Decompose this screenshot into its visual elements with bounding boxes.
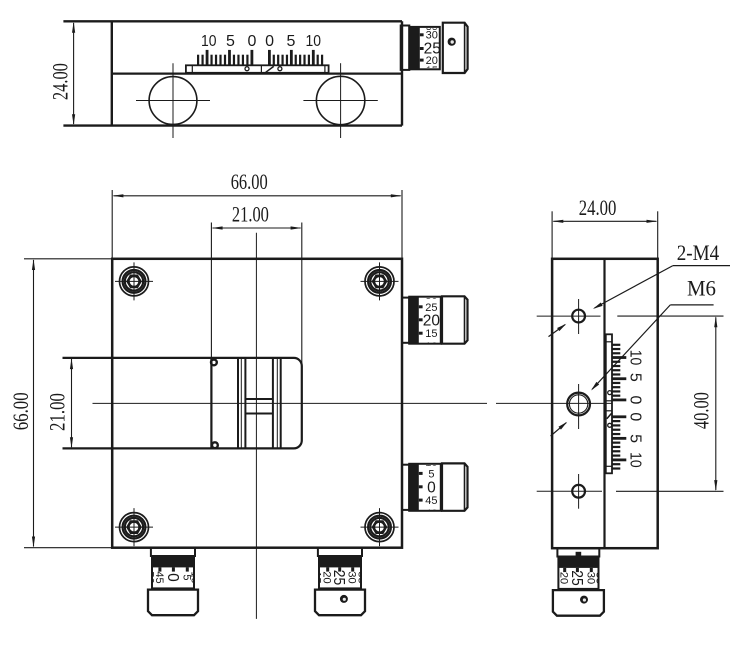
side ruler screw top — [608, 391, 612, 395]
svg-text:5: 5 — [626, 434, 643, 443]
MS1 collar — [557, 548, 599, 556]
MS1 thimble — [553, 590, 604, 616]
svg-text:21.00: 21.00 — [232, 201, 269, 226]
carriage corner relief bottom-left — [212, 442, 218, 448]
top view mid parting line — [112, 72, 402, 74]
top view body outline — [63, 20, 402, 22]
MR1 collar — [402, 298, 409, 343]
svg-text:10: 10 — [626, 452, 643, 468]
svg-text:21.00: 21.00 — [45, 393, 70, 431]
side dimension 24.00 — [551, 211, 553, 258]
MB1 collar — [151, 548, 195, 556]
side ruler base bar — [606, 334, 612, 473]
front dimension 66.00 vertical — [24, 258, 112, 260]
svg-text:0: 0 — [247, 33, 256, 50]
top ruler screw left — [245, 67, 249, 71]
carriage center block lines — [245, 398, 273, 400]
top view dimension 24.00 — [73, 23, 75, 124]
top view knob hole right — [316, 76, 364, 124]
top ruler tick marks left scale — [197, 50, 253, 66]
MB2 collar — [318, 548, 362, 556]
corner socket screw 3 — [115, 508, 153, 546]
svg-text:24.00: 24.00 — [579, 195, 617, 220]
front dimension 21.00 vertical — [63, 357, 212, 359]
side hole bottom M4 — [572, 485, 585, 498]
corner socket screw 2 — [361, 262, 399, 300]
MB2 barrel — [319, 556, 361, 588]
svg-text:5: 5 — [286, 33, 295, 50]
svg-text:0: 0 — [427, 479, 436, 496]
svg-text:10: 10 — [201, 33, 217, 50]
svg-text:20: 20 — [423, 312, 441, 329]
MB2 thimble — [315, 590, 365, 616]
svg-text:M6: M6 — [687, 276, 716, 301]
side hole middle M6 — [567, 393, 590, 416]
svg-text:0: 0 — [626, 395, 643, 404]
front dimension 21.00 horizontal — [210, 223, 212, 449]
corner socket screw 1 — [115, 262, 153, 300]
svg-text:40.00: 40.00 — [689, 392, 714, 429]
top ruler index pointer — [266, 66, 274, 72]
svg-text:66.00: 66.00 — [8, 392, 33, 430]
svg-text:45: 45 — [425, 495, 437, 507]
svg-text:66.00: 66.00 — [231, 169, 268, 194]
svg-text:45: 45 — [153, 571, 165, 583]
MR1 thimble — [442, 296, 468, 343]
MS1 barrel — [558, 557, 598, 589]
svg-text:25: 25 — [330, 570, 347, 586]
corner socket screw 4 — [361, 508, 399, 546]
svg-text:2-M4: 2-M4 — [677, 240, 720, 265]
top ruler tick marks right scale — [268, 50, 323, 66]
MB1 thimble — [148, 590, 198, 616]
svg-text:15: 15 — [425, 328, 437, 340]
front view vertical centerline — [255, 233, 257, 619]
side view parting line — [603, 259, 605, 548]
side ruler screw bottom — [608, 423, 612, 427]
front view stage body square — [112, 259, 402, 548]
front view horizontal centerline — [93, 402, 488, 404]
carriage corner relief top-left — [211, 360, 217, 366]
side ruler ticks upper scale — [612, 344, 626, 402]
MR1 barrel — [409, 297, 441, 344]
svg-text:10: 10 — [626, 350, 643, 366]
top micrometer collar — [401, 26, 410, 70]
svg-text:24.00: 24.00 — [48, 63, 73, 100]
svg-text:0: 0 — [626, 412, 643, 421]
side ruler ticks lower scale — [612, 415, 626, 469]
side ruler index pointer — [607, 413, 612, 419]
svg-text:10: 10 — [306, 33, 322, 50]
top micrometer barrel — [409, 27, 440, 69]
top micrometer scale numbers — [424, 21, 441, 77]
side view body outline — [552, 259, 658, 548]
MS1 set screw — [580, 596, 588, 604]
MR2 barrel — [409, 464, 441, 511]
MR2 collar — [402, 465, 409, 510]
MB1 barrel — [152, 556, 194, 588]
top micrometer set screw — [448, 38, 456, 46]
MR2 thimble — [442, 463, 468, 510]
svg-text:0: 0 — [265, 33, 274, 50]
svg-text:5: 5 — [226, 33, 235, 50]
carriage slot lines — [237, 358, 239, 449]
top ruler screw right — [278, 67, 282, 71]
side hole top M4 — [572, 310, 585, 323]
front dimension 66.00 horizontal — [111, 190, 113, 259]
side dimension 40.00 — [617, 315, 723, 317]
top view knob hole left — [149, 77, 197, 125]
top ruler base bar — [186, 65, 329, 73]
svg-text:25: 25 — [568, 570, 585, 586]
front carriage platform outline — [63, 358, 302, 449]
MB2 set screw — [340, 595, 348, 603]
svg-text:5: 5 — [626, 373, 643, 382]
top micrometer thimble — [443, 23, 468, 73]
svg-text:0: 0 — [164, 573, 181, 582]
